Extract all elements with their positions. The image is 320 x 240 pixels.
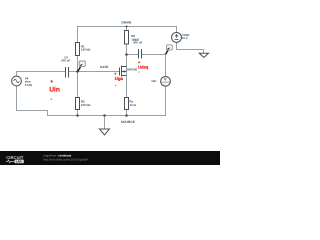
svg-text:VM1: VM1 bbox=[151, 80, 157, 83]
svg-text:+ –: + – bbox=[163, 83, 167, 86]
svg-text:470 nF: 470 nF bbox=[133, 41, 142, 45]
svg-text:-: - bbox=[138, 70, 140, 74]
svg-text:Udsq: Udsq bbox=[138, 64, 149, 69]
svg-text:100 kΩ: 100 kΩ bbox=[81, 103, 91, 107]
svg-text:180 kΩ: 180 kΩ bbox=[81, 48, 91, 52]
svg-text:-: - bbox=[51, 96, 53, 102]
svg-text:http://circuitlab.com/c25re26g: http://circuitlab.com/c25re26gs5jk4 bbox=[43, 157, 89, 161]
svg-text:Uga: Uga bbox=[115, 76, 124, 81]
svg-text:DRAIN: DRAIN bbox=[122, 21, 133, 25]
svg-text:-: - bbox=[115, 83, 117, 87]
svg-text:470 nF: 470 nF bbox=[61, 59, 70, 63]
svg-text:1k Ω: 1k Ω bbox=[130, 103, 137, 107]
svg-text:GATE: GATE bbox=[100, 65, 108, 69]
svg-text:10 V: 10 V bbox=[182, 36, 188, 40]
svg-text:Uin: Uin bbox=[49, 87, 60, 94]
svg-text:LAB: LAB bbox=[16, 160, 22, 164]
svg-text:5 kHz: 5 kHz bbox=[25, 83, 33, 87]
svg-text:SOURCE: SOURCE bbox=[121, 120, 136, 124]
svg-text:V: V bbox=[164, 77, 167, 82]
svg-text:2N7000: 2N7000 bbox=[127, 68, 138, 72]
svg-text:+: + bbox=[50, 79, 53, 85]
